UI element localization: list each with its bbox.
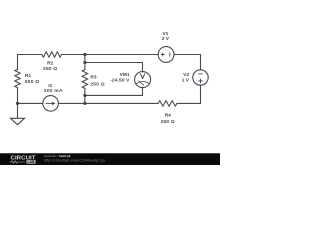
svg-text:500 Ω: 500 Ω xyxy=(25,79,39,85)
svg-text:250 Ω: 250 Ω xyxy=(90,82,104,88)
svg-text:2 V: 2 V xyxy=(162,36,170,42)
svg-text:V2: V2 xyxy=(183,72,189,78)
svg-text:R3: R3 xyxy=(90,75,96,81)
svg-text:R4: R4 xyxy=(165,113,171,119)
svg-text:http://circuitlab.com/c264hurh: http://circuitlab.com/c264hurhg7go xyxy=(44,158,106,163)
svg-text:1 V: 1 V xyxy=(182,78,190,84)
svg-text:I1: I1 xyxy=(48,83,52,89)
svg-text:-24.50 V: -24.50 V xyxy=(110,78,130,84)
svg-text:VM1: VM1 xyxy=(120,72,130,78)
svg-text:LAB: LAB xyxy=(28,160,36,164)
svg-text:250 Ω: 250 Ω xyxy=(43,66,57,72)
svg-text:250 Ω: 250 Ω xyxy=(161,119,175,125)
svg-text:R1: R1 xyxy=(25,73,31,79)
svg-text:200 mA: 200 mA xyxy=(44,88,63,94)
svg-text:V1: V1 xyxy=(162,31,168,37)
svg-text:R2: R2 xyxy=(47,61,53,67)
